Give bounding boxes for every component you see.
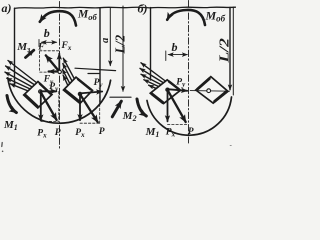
- svg-text:М1: М1: [145, 126, 160, 139]
- svg-text:Ру: Ру: [94, 78, 104, 89]
- workpiece outline b: left and right edges: [150, 8, 152, 80]
- dashed decomposition box for F: [40, 51, 60, 72]
- svg-text:Моб: Моб: [205, 9, 226, 24]
- moment arc M_ob a: [40, 11, 76, 25]
- dashed projection lines left tooth a: [41, 92, 59, 122]
- pivot circle right tooth b: [207, 89, 211, 93]
- axis line through right tooth b: [190, 90, 229, 93]
- svg-text:Fx: Fx: [61, 41, 72, 52]
- fan arrows of right tooth a: [63, 58, 79, 87]
- svg-text:L/2: L/2: [217, 38, 232, 64]
- svg-text:a: a: [100, 38, 111, 43]
- pivot circle left tooth b: [166, 88, 169, 91]
- right tooth insert diamond b: [196, 77, 228, 104]
- pivot circle right tooth a: [78, 92, 81, 95]
- dimension a (vertical): [109, 8, 111, 66]
- stray scan marks bottom left: [1, 143, 3, 147]
- force P_y left tooth a: [41, 90, 57, 92]
- cutter circle arc a: [8, 78, 111, 123]
- centerline b (dash-dot): [188, 1, 190, 144]
- force P left tooth b: [168, 90, 186, 122]
- svg-text:М2: М2: [122, 110, 137, 123]
- wavy top edge line across both figures: [15, 7, 236, 8]
- force P_y left tooth b: [168, 89, 188, 91]
- svg-text:Р: Р: [55, 128, 61, 138]
- force P_y right tooth a: [80, 92, 102, 94]
- moment arrow M2 a: [112, 101, 121, 117]
- centerline a (dash-dot): [59, 2, 61, 151]
- dashed projection lines right tooth a: [80, 92, 100, 124]
- moment arrow M1 a: [7, 96, 16, 113]
- force P left tooth a: [41, 92, 57, 120]
- svg-text:Моб: Моб: [77, 9, 97, 22]
- svg-text:b: b: [172, 40, 178, 54]
- svg-text:b: b: [44, 26, 50, 40]
- svg-text:Рх: Рх: [37, 128, 47, 139]
- svg-text:Ру: Ру: [176, 78, 186, 89]
- force P right tooth a: [80, 94, 98, 122]
- moment arrow M1 b: [137, 99, 146, 116]
- machined surface lines a: [75, 68, 116, 73]
- svg-text:Рх: Рх: [75, 128, 85, 139]
- svg-text:Ру: Ру: [49, 82, 59, 93]
- force F_y arrow (left): [49, 70, 60, 72]
- right tooth insert diamond a: [64, 77, 93, 103]
- svg-text:Р: Р: [99, 127, 105, 137]
- svg-text:L/2: L/2: [112, 35, 127, 55]
- fan arrows of left tooth b: [141, 63, 168, 83]
- force P_x left tooth b: [167, 90, 169, 122]
- left tooth insert diamond a: [24, 82, 52, 109]
- left tooth insert diamond b: [150, 80, 180, 104]
- dimension L/2 (middle): [122, 6, 124, 91]
- svg-text:F: F: [37, 42, 45, 52]
- moment arc M_ob b: [167, 10, 205, 25]
- force P_x left tooth a: [40, 92, 42, 121]
- svg-text:М1: М1: [3, 119, 18, 132]
- svg-text:б): б): [138, 1, 148, 15]
- pivot circle at cutter center: [58, 70, 61, 73]
- workpiece outline a: left and right edges: [15, 8, 101, 104]
- svg-text:а): а): [2, 1, 12, 15]
- pivot circle left tooth a: [39, 90, 42, 93]
- svg-text:Мз: Мз: [16, 41, 30, 54]
- force F_x arrow (up): [58, 54, 60, 72]
- stray scan mark bottom right: [230, 144, 232, 147]
- force P_x right tooth a: [79, 94, 81, 120]
- dashed projection line left tooth b: [168, 123, 189, 125]
- force F resultant arrow: [46, 55, 60, 72]
- dimension L/2 right b: [232, 7, 234, 95]
- fan arrows of left tooth a: [8, 61, 42, 87]
- cutter circle arc b: [147, 97, 232, 135]
